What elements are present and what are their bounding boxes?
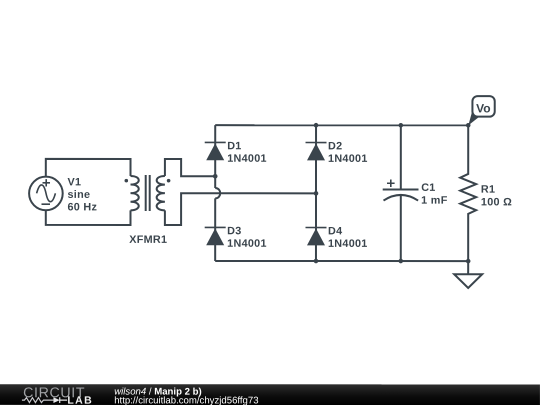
svg-text:C1: C1	[421, 182, 435, 194]
svg-text:XFMR1: XFMR1	[129, 234, 167, 246]
svg-text:100 Ω: 100 Ω	[481, 196, 512, 208]
svg-text:1 mF: 1 mF	[421, 195, 448, 207]
svg-text:D3: D3	[227, 225, 241, 237]
svg-text:D2: D2	[328, 140, 342, 152]
svg-text:1N4001: 1N4001	[328, 238, 368, 250]
svg-text:1N4001: 1N4001	[328, 153, 368, 165]
svg-text:1N4001: 1N4001	[227, 153, 267, 165]
svg-text:http://circuitlab.com/chyzjd56: http://circuitlab.com/chyzjd56ffg73	[114, 395, 258, 405]
svg-text:sine: sine	[68, 189, 91, 201]
svg-text:V1: V1	[68, 176, 82, 188]
svg-text:D4: D4	[328, 225, 342, 237]
svg-text:LAB: LAB	[67, 395, 93, 405]
svg-text:R1: R1	[481, 184, 495, 196]
svg-text:1N4001: 1N4001	[227, 238, 267, 250]
svg-text:60 Hz: 60 Hz	[67, 201, 97, 213]
svg-text:Vo: Vo	[476, 101, 490, 115]
svg-text:D1: D1	[227, 140, 241, 152]
